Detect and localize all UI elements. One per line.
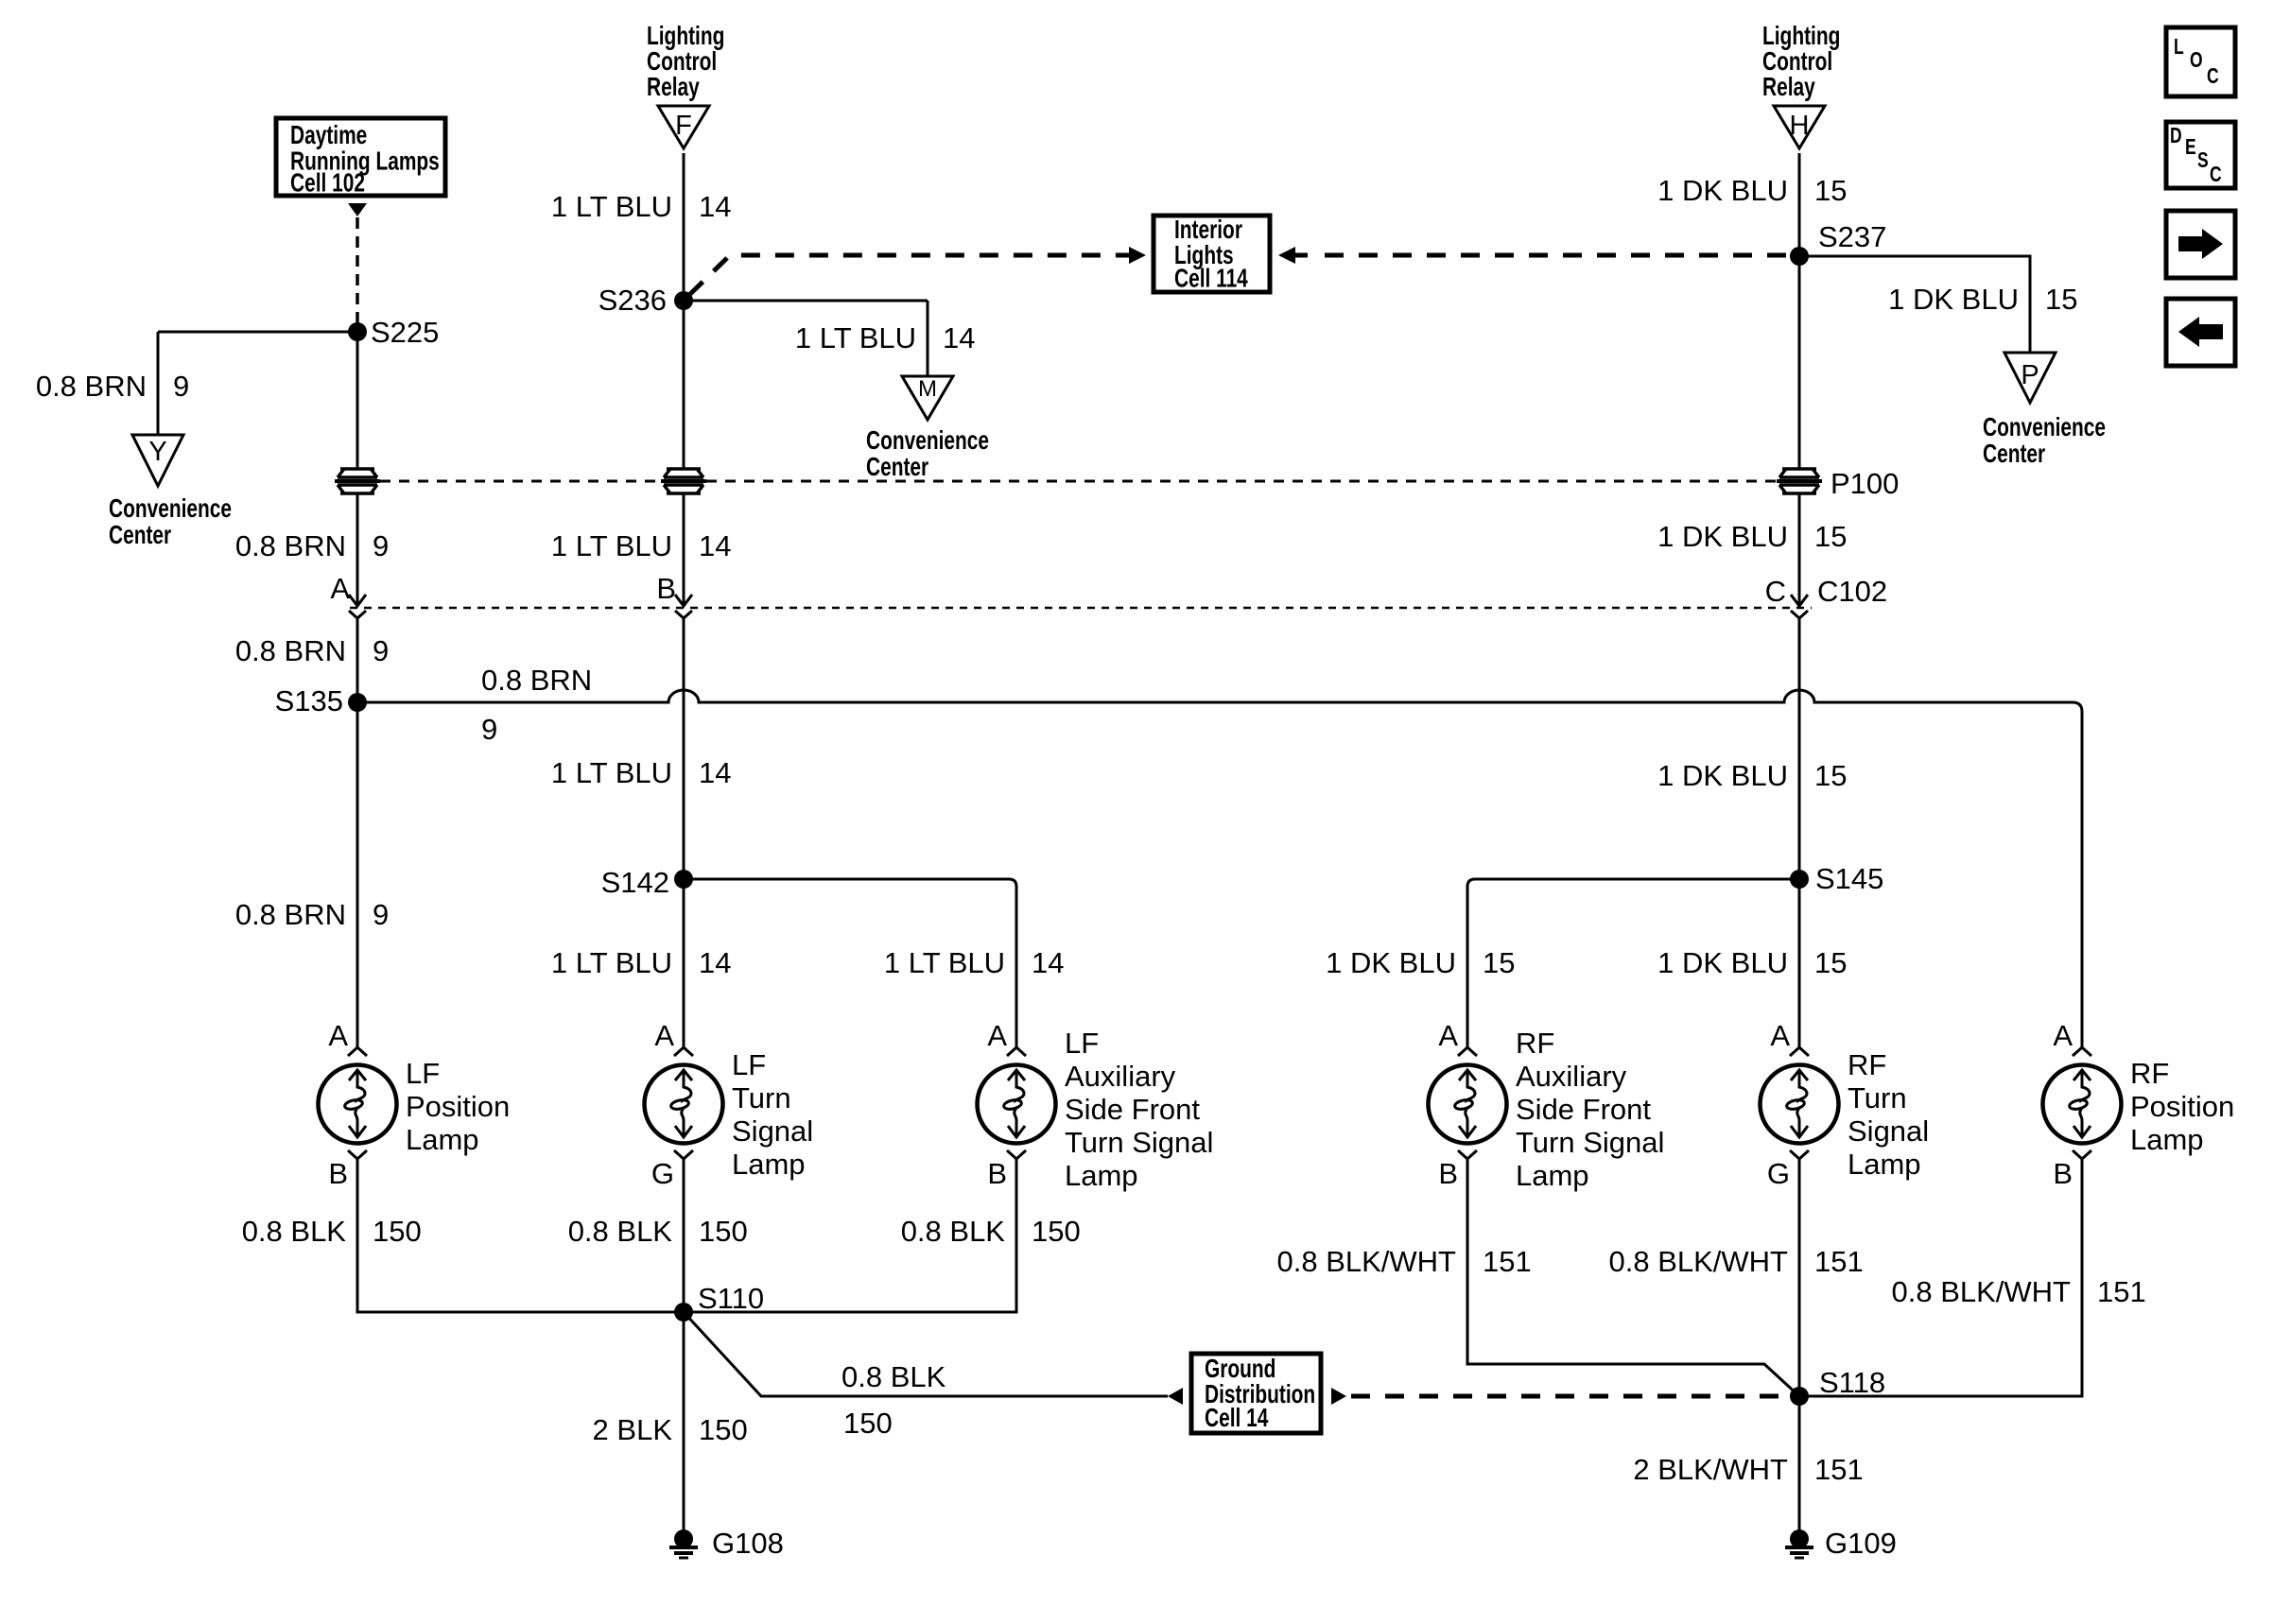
svg-text:9: 9: [373, 634, 389, 667]
dashed wire S236 to Interior Lights: [689, 255, 1117, 295]
wire C102 to S135: [356, 618, 359, 702]
wire S237 branch to P: [1799, 256, 2030, 353]
wire S142 to LF turn lamp: [683, 879, 685, 1047]
svg-text:Lamp: Lamp: [2130, 1123, 2204, 1156]
triangle P convenience center: [2004, 353, 2056, 403]
wire S145 to RF aux lamp: [1467, 879, 1799, 1047]
svg-text:C: C: [2207, 65, 2219, 89]
svg-text:LF: LF: [732, 1048, 766, 1081]
triangle Y convenience center: [132, 435, 183, 486]
connector pass-through A: [349, 586, 366, 618]
svg-text:150: 150: [699, 1413, 748, 1446]
svg-text:14: 14: [699, 529, 731, 562]
connector pass-through C: [1791, 586, 1808, 618]
wire S145 to RF turn lamp: [1798, 879, 1801, 1047]
svg-text:Lamp: Lamp: [1065, 1159, 1138, 1192]
wire B to S142: [683, 618, 685, 879]
wire RF aux lamp B to S118: [1467, 1159, 1799, 1396]
dashed connector line C102: [350, 607, 1812, 610]
svg-text:Daytime: Daytime: [290, 121, 367, 149]
legend DESC box: [2166, 122, 2235, 188]
svg-text:G: G: [651, 1157, 674, 1190]
wire F to S236: [683, 153, 685, 296]
svg-text:14: 14: [699, 946, 731, 979]
svg-text:1 DK BLU: 1 DK BLU: [1888, 283, 2019, 316]
svg-text:151: 151: [1483, 1245, 1532, 1278]
svg-text:15: 15: [1483, 946, 1515, 979]
svg-text:Signal: Signal: [1848, 1114, 1929, 1148]
svg-text:0.8 BRN: 0.8 BRN: [36, 370, 147, 403]
svg-text:0.8 BRN: 0.8 BRN: [235, 634, 346, 667]
svg-text:Center: Center: [109, 521, 172, 549]
svg-text:Lamp: Lamp: [1848, 1148, 1921, 1181]
legend right-arrow box: [2166, 211, 2235, 278]
svg-text:151: 151: [1814, 1453, 1864, 1486]
svg-text:G108: G108: [712, 1527, 784, 1560]
svg-text:1 LT BLU: 1 LT BLU: [551, 190, 672, 223]
wire RF position lamp B to S118: [1799, 1159, 2082, 1396]
splice S135: [348, 693, 367, 712]
svg-text:Side Front: Side Front: [1516, 1093, 1651, 1126]
svg-text:A: A: [1770, 1019, 1790, 1052]
svg-text:9: 9: [373, 898, 389, 931]
svg-text:Control: Control: [647, 47, 717, 76]
Daytime Running Lamps Cell 102 box: [276, 118, 445, 196]
svg-text:C: C: [1765, 575, 1786, 608]
svg-text:1 DK BLU: 1 DK BLU: [1326, 946, 1456, 979]
arrowhead from Daytime box: [348, 203, 367, 216]
svg-text:Relay: Relay: [1762, 73, 1815, 101]
dashed wire to S118: [1351, 1394, 1792, 1399]
wire RF turn lamp G to S118: [1798, 1159, 1801, 1396]
wire S110 to ground distribution: [684, 1312, 1168, 1396]
svg-text:Relay: Relay: [647, 73, 700, 101]
svg-text:Side Front: Side Front: [1065, 1093, 1200, 1126]
svg-text:Cell 114: Cell 114: [1174, 265, 1248, 293]
arrow into Interior Lights box (right): [1278, 247, 1295, 264]
svg-text:Turn Signal: Turn Signal: [1516, 1126, 1664, 1159]
connector pass-through B: [675, 586, 692, 618]
wire S110 to G108: [683, 1312, 685, 1531]
svg-text:0.8 BLK: 0.8 BLK: [842, 1360, 946, 1393]
svg-text:A: A: [654, 1019, 674, 1052]
lamp LF Turn Signal: [645, 1047, 723, 1159]
wire S225 to grommet: [356, 332, 359, 469]
dashed wire Interior Lights to S237: [1325, 253, 1792, 258]
svg-text:H: H: [1790, 111, 1810, 141]
svg-text:G: G: [1767, 1157, 1790, 1190]
svg-text:Center: Center: [866, 453, 929, 481]
svg-text:Cell 102: Cell 102: [290, 169, 365, 198]
grommet (center column): [661, 469, 706, 493]
svg-text:A: A: [987, 1019, 1007, 1052]
svg-text:2 BLK: 2 BLK: [593, 1413, 673, 1446]
svg-text:151: 151: [1814, 1245, 1864, 1278]
svg-text:B: B: [328, 1157, 348, 1190]
svg-text:0.8 BLK: 0.8 BLK: [568, 1215, 673, 1248]
wire to C102 (C): [1798, 492, 1801, 606]
wire S236 branch to M: [684, 300, 928, 302]
arrowhead left of Ground Distribution box: [1168, 1388, 1183, 1405]
svg-text:15: 15: [1814, 520, 1847, 553]
svg-text:B: B: [987, 1157, 1007, 1190]
svg-text:15: 15: [1814, 174, 1847, 207]
svg-text:A: A: [330, 572, 350, 605]
wire S225 branch: [158, 331, 350, 334]
wire 0.8 BRN bus from S135 to RF position lamp: [357, 690, 2082, 1047]
wire to C102 (A): [356, 492, 359, 606]
svg-text:0.8 BLK/WHT: 0.8 BLK/WHT: [1892, 1275, 2072, 1308]
wire S142 to LF aux lamp: [684, 879, 1016, 1047]
svg-text:Turn: Turn: [732, 1081, 791, 1114]
svg-text:150: 150: [373, 1215, 422, 1248]
svg-text:A: A: [328, 1019, 348, 1052]
svg-text:RF: RF: [1516, 1027, 1554, 1060]
svg-text:15: 15: [2045, 283, 2077, 316]
svg-text:1 LT BLU: 1 LT BLU: [551, 946, 672, 979]
svg-text:RF: RF: [2130, 1057, 2169, 1090]
splice S110: [674, 1303, 693, 1322]
svg-text:9: 9: [173, 370, 189, 403]
splice S236: [674, 291, 693, 310]
lamp RF Auxiliary: [1429, 1047, 1507, 1159]
triangle M convenience center: [902, 376, 953, 420]
svg-text:S118: S118: [1819, 1366, 1885, 1399]
svg-text:S: S: [2197, 149, 2209, 173]
svg-text:14: 14: [943, 321, 975, 354]
svg-text:Control: Control: [1762, 47, 1832, 76]
Interior Lights Cell 114 box: [1154, 216, 1270, 292]
svg-text:15: 15: [1814, 946, 1847, 979]
svg-text:G109: G109: [1825, 1527, 1897, 1560]
svg-text:B: B: [1438, 1157, 1458, 1190]
arrowhead right of Ground Distribution box: [1331, 1388, 1346, 1405]
svg-text:1 LT BLU: 1 LT BLU: [884, 946, 1005, 979]
svg-text:150: 150: [1032, 1215, 1081, 1248]
ground G109: [1785, 1529, 1813, 1558]
svg-text:A: A: [2053, 1019, 2073, 1052]
svg-text:14: 14: [699, 756, 731, 789]
svg-text:Center: Center: [1983, 440, 2046, 468]
wire down to Y: [157, 332, 160, 435]
svg-text:S110: S110: [698, 1282, 764, 1315]
splice S237: [1790, 247, 1809, 266]
svg-text:151: 151: [2097, 1275, 2146, 1308]
svg-text:Convenience: Convenience: [109, 494, 232, 523]
lamp RF Position: [2043, 1047, 2122, 1159]
legend LOC box: [2166, 27, 2235, 96]
svg-text:Signal: Signal: [732, 1114, 813, 1148]
dashed bulkhead line right: [706, 480, 1777, 483]
dashed wire to S225: [356, 217, 359, 325]
lamp RF Turn Signal: [1761, 1047, 1839, 1159]
svg-text:Position: Position: [406, 1090, 510, 1123]
svg-text:0.8 BLK: 0.8 BLK: [901, 1215, 1006, 1248]
grommet (left column): [335, 469, 380, 493]
wire S236 to grommet: [683, 301, 685, 469]
svg-text:0.8 BLK/WHT: 0.8 BLK/WHT: [1277, 1245, 1457, 1278]
svg-text:Auxiliary: Auxiliary: [1065, 1060, 1176, 1093]
relay triangle F: [658, 106, 709, 148]
lamp LF Auxiliary: [978, 1047, 1056, 1159]
svg-text:Lamp: Lamp: [406, 1123, 479, 1156]
svg-text:1 DK BLU: 1 DK BLU: [1657, 946, 1788, 979]
svg-text:1 LT BLU: 1 LT BLU: [795, 321, 916, 354]
svg-text:Y: Y: [148, 437, 166, 467]
svg-text:1 DK BLU: 1 DK BLU: [1657, 520, 1788, 553]
svg-text:1 LT BLU: 1 LT BLU: [551, 529, 672, 562]
svg-text:Lighting: Lighting: [647, 22, 724, 50]
svg-text:S237: S237: [1818, 220, 1886, 253]
svg-text:1 DK BLU: 1 DK BLU: [1657, 174, 1788, 207]
svg-text:0.8 BLK/WHT: 0.8 BLK/WHT: [1609, 1245, 1789, 1278]
svg-text:1 DK BLU: 1 DK BLU: [1657, 759, 1788, 792]
legend left-arrow box: [2166, 299, 2235, 366]
svg-text:15: 15: [1814, 759, 1847, 792]
splice S145: [1790, 870, 1809, 889]
svg-text:O: O: [2190, 49, 2203, 73]
svg-text:9: 9: [373, 529, 389, 562]
wire C to S145: [1798, 618, 1801, 879]
svg-text:S145: S145: [1815, 862, 1883, 895]
relay triangle H: [1774, 106, 1825, 148]
svg-text:Lamp: Lamp: [732, 1148, 806, 1181]
svg-text:Ground: Ground: [1205, 1355, 1275, 1383]
svg-text:0.8 BRN: 0.8 BRN: [235, 529, 346, 562]
svg-text:0.8 BLK: 0.8 BLK: [242, 1215, 347, 1248]
wire to C102 (B): [683, 492, 685, 606]
svg-text:0.8 BRN: 0.8 BRN: [481, 664, 592, 697]
svg-text:Convenience: Convenience: [866, 426, 989, 455]
svg-text:Turn: Turn: [1848, 1081, 1907, 1114]
grommet P100: [1777, 469, 1822, 493]
svg-text:E: E: [2185, 136, 2196, 160]
svg-text:D: D: [2170, 125, 2182, 148]
svg-text:S135: S135: [275, 684, 343, 717]
wire S118 to G109: [1798, 1396, 1801, 1531]
svg-text:Convenience: Convenience: [1983, 413, 2106, 441]
svg-text:Lighting: Lighting: [1762, 22, 1840, 50]
splice S225: [348, 322, 367, 341]
svg-text:14: 14: [699, 190, 731, 223]
svg-text:Cell 14: Cell 14: [1205, 1404, 1269, 1432]
svg-text:P: P: [2021, 360, 2039, 390]
ground G108: [669, 1529, 698, 1558]
wire S237 to P100 grommet: [1798, 256, 1801, 469]
svg-text:S225: S225: [371, 316, 439, 349]
svg-text:L: L: [2174, 36, 2184, 60]
svg-text:150: 150: [843, 1407, 893, 1440]
svg-text:9: 9: [481, 713, 497, 746]
svg-text:150: 150: [699, 1215, 748, 1248]
splice S118: [1790, 1387, 1809, 1406]
lamp LF Position: [319, 1047, 397, 1159]
wire LF turn lamp G to S110: [683, 1159, 685, 1312]
svg-text:S236: S236: [599, 284, 667, 317]
svg-text:F: F: [675, 111, 692, 141]
svg-text:RF: RF: [1848, 1048, 1886, 1081]
svg-text:Turn Signal: Turn Signal: [1065, 1126, 1213, 1159]
svg-text:Interior: Interior: [1174, 216, 1242, 244]
svg-text:B: B: [2053, 1157, 2073, 1190]
svg-text:P100: P100: [1831, 467, 1899, 500]
dashed bulkhead line left: [380, 480, 661, 483]
svg-text:M: M: [918, 376, 937, 402]
svg-text:C: C: [2210, 164, 2222, 187]
svg-text:LF: LF: [1065, 1027, 1099, 1060]
svg-text:2 BLK/WHT: 2 BLK/WHT: [1633, 1453, 1788, 1486]
wire LF position lamp B to S110: [357, 1159, 684, 1312]
wire H to S237: [1798, 153, 1801, 251]
svg-text:Lamp: Lamp: [1516, 1159, 1589, 1192]
splice S142: [674, 870, 693, 889]
svg-text:LF: LF: [406, 1057, 440, 1090]
svg-text:C102: C102: [1817, 575, 1887, 608]
svg-text:Auxiliary: Auxiliary: [1516, 1060, 1627, 1093]
svg-text:0.8 BRN: 0.8 BRN: [235, 898, 346, 931]
arrow into Interior Lights box (left): [1117, 253, 1131, 258]
svg-text:1 LT BLU: 1 LT BLU: [551, 756, 672, 789]
svg-text:B: B: [656, 572, 676, 605]
svg-text:14: 14: [1032, 946, 1064, 979]
Ground Distribution Cell 14 box: [1191, 1354, 1321, 1433]
svg-text:A: A: [1438, 1019, 1458, 1052]
wire S135 to LF position lamp: [356, 702, 359, 1047]
svg-text:Position: Position: [2130, 1090, 2234, 1123]
svg-text:S142: S142: [601, 866, 669, 899]
wire down to M: [927, 301, 929, 376]
wire LF aux lamp B to S110: [684, 1159, 1016, 1312]
